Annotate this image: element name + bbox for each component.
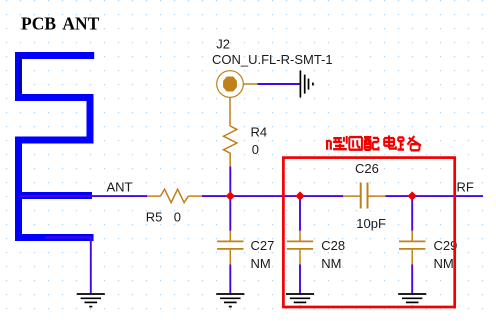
junction node B	[295, 191, 304, 200]
capacitor C29	[399, 231, 425, 265]
junction node C	[408, 191, 417, 200]
J2 pin 1 (signal, down to R4)	[229, 97, 231, 126]
title n-type matching circuit (hand-drawn CJK)	[326, 135, 421, 150]
J2 center pad	[223, 77, 237, 92]
ground (C29)	[398, 294, 426, 307]
letter n	[326, 140, 331, 150]
antenna artifact thin black line	[19, 56, 21, 94]
char 电	[384, 135, 396, 148]
wire R5 to C26 (through junctions A and B)	[202, 195, 343, 197]
capacitor C27	[217, 231, 243, 265]
wire J2 to ground	[258, 83, 300, 85]
svg-text:NM: NM	[434, 256, 454, 271]
svg-text:0: 0	[174, 210, 181, 225]
connector U.FL J2 body circle	[217, 71, 258, 126]
char 匹	[349, 137, 363, 150]
red matching-network box	[283, 158, 454, 307]
wire C27 to ground	[229, 265, 231, 295]
wire antenna to ground	[45, 238, 91, 295]
ground (J2, rotated)	[300, 71, 313, 98]
wire junction to C27	[229, 196, 231, 231]
wire junction to C29	[411, 196, 413, 231]
wire C26 to RF (through junction C)	[386, 195, 484, 197]
capacitor C28	[287, 231, 313, 265]
ground (antenna)	[77, 294, 105, 307]
svg-text:J2: J2	[216, 36, 230, 51]
char 路	[398, 136, 422, 150]
svg-text:C28: C28	[321, 238, 345, 253]
char 配	[364, 137, 379, 150]
antenna meander (blue graphic)	[15, 56, 94, 238]
J2 pin 2 (shield, to ground)	[243, 83, 257, 85]
svg-text:RF: RF	[457, 180, 474, 195]
svg-text:R4: R4	[251, 125, 268, 140]
capacitor C26	[343, 183, 386, 209]
wire R4 bottom to junction	[229, 167, 231, 197]
svg-text:NM: NM	[321, 256, 341, 271]
svg-text:C26: C26	[355, 161, 379, 176]
wire junction to C28	[299, 196, 301, 231]
svg-text:NM: NM	[251, 256, 271, 271]
svg-text:ANT: ANT	[107, 180, 133, 195]
char 型	[333, 136, 347, 149]
svg-text:CON_U.FL-R-SMT-1: CON_U.FL-R-SMT-1	[212, 52, 333, 67]
resistor R5	[147, 189, 202, 202]
junction node A	[226, 191, 235, 200]
ground (C28)	[286, 294, 314, 307]
ground (C27)	[216, 294, 244, 307]
svg-text:0: 0	[252, 142, 259, 157]
wire C28 to ground	[299, 265, 301, 295]
svg-text:PCB ANT: PCB ANT	[21, 14, 100, 34]
wire C29 to ground	[411, 265, 413, 295]
svg-text:10pF: 10pF	[356, 216, 386, 231]
wire ANT net: antenna to R5	[20, 195, 147, 197]
resistor R4	[224, 126, 237, 167]
svg-text:R5: R5	[146, 210, 163, 225]
svg-text:C27: C27	[251, 238, 275, 253]
